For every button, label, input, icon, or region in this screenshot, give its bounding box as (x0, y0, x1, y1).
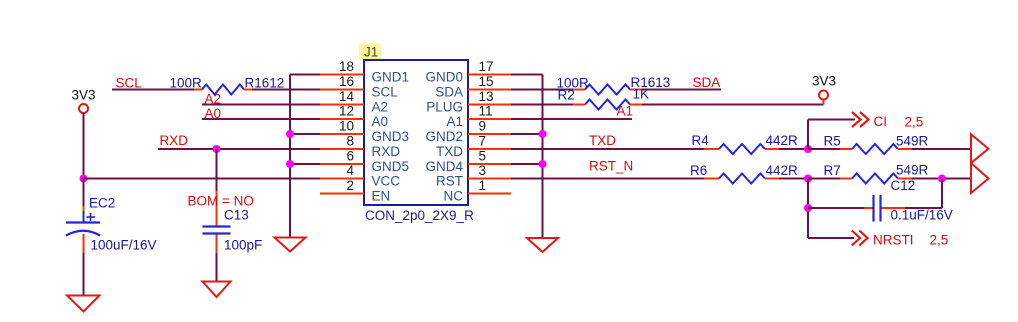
capacitor C13 (203, 227, 231, 234)
svg-text:2,5: 2,5 (905, 115, 924, 130)
svg-text:R7: R7 (824, 163, 841, 178)
resistor R1613 (573, 85, 642, 95)
pin numbers left (339, 59, 355, 193)
svg-text:14: 14 (339, 89, 355, 104)
svg-text:A1: A1 (446, 114, 463, 129)
svg-text:11: 11 (479, 104, 493, 119)
port NRSTI chevron (852, 231, 868, 246)
svg-text:RXD: RXD (160, 133, 189, 148)
connector J1 body CON_2p0_2X9_R (364, 60, 468, 205)
svg-text:EN: EN (372, 189, 391, 204)
svg-text:VCC: VCC (372, 174, 401, 189)
svg-text:J1: J1 (364, 45, 378, 60)
svg-text:12: 12 (339, 104, 354, 119)
junction GND rail pin 10 (286, 130, 294, 138)
junction R4 / R5 / CI (804, 145, 812, 153)
svg-text:18: 18 (339, 59, 354, 74)
svg-text:15: 15 (479, 74, 494, 89)
svg-text:R2: R2 (558, 88, 575, 103)
svg-text:442R: 442R (766, 133, 799, 148)
power symbol 3V3 (left) (72, 88, 96, 114)
ground (left rail) (275, 238, 306, 252)
svg-text:CON_2p0_2X9_R: CON_2p0_2X9_R (365, 208, 474, 223)
svg-text:GND4: GND4 (425, 159, 463, 174)
svg-text:13: 13 (479, 89, 494, 104)
junction GND rail pin 5 (539, 160, 547, 168)
pin numbers right (479, 59, 494, 193)
svg-text:1K: 1K (633, 87, 650, 102)
svg-text:RST: RST (436, 174, 463, 189)
svg-text:2: 2 (346, 178, 354, 193)
svg-text:0.1uF/16V: 0.1uF/16V (891, 208, 953, 223)
svg-text:100uF/16V: 100uF/16V (91, 238, 157, 253)
ground (C13) (203, 282, 231, 298)
svg-text:4: 4 (346, 163, 354, 178)
svg-text:16: 16 (339, 74, 354, 89)
wire RXD net (158, 148, 320, 150)
svg-text:TXD: TXD (436, 144, 463, 159)
arrow port (RST_N out) (971, 163, 989, 193)
port CI chevron (852, 112, 869, 127)
wire PLUG net (pin 13 to R2) (511, 104, 573, 106)
wire C13 to ground (216, 235, 218, 282)
svg-text:3V3: 3V3 (812, 74, 836, 89)
wire TXD net (pin 7 to R4) (511, 148, 704, 150)
svg-text:NRSTI: NRSTI (873, 233, 914, 248)
wire TXD net (R4 to junction) (779, 148, 808, 150)
svg-text:549R: 549R (896, 134, 929, 149)
connector J1 designator highlight (359, 44, 381, 60)
svg-text:RXD: RXD (372, 144, 401, 159)
svg-text:100R: 100R (170, 76, 203, 91)
svg-text:SDA: SDA (435, 85, 463, 100)
svg-text:A1: A1 (617, 104, 634, 119)
resistor R7 (840, 174, 912, 184)
svg-text:SCL: SCL (116, 76, 143, 91)
svg-text:R5: R5 (824, 134, 841, 149)
wire SCL net (112, 89, 194, 91)
wire A2 net (202, 104, 320, 106)
svg-text:2,5: 2,5 (930, 233, 949, 248)
junction RXD / C13 (213, 145, 221, 153)
svg-text:R6: R6 (690, 163, 707, 178)
pin stubs right (17,15,13,11,9,7,5,3,1) (468, 75, 511, 194)
svg-text:GND3: GND3 (372, 129, 410, 144)
svg-text:C12: C12 (891, 178, 916, 193)
svg-text:5: 5 (479, 149, 487, 164)
svg-text:10: 10 (339, 119, 354, 134)
svg-text:GND1: GND1 (372, 70, 410, 85)
svg-text:SDA: SDA (693, 75, 721, 90)
wire SDA net (R1613 to label) (642, 89, 721, 91)
svg-text:C13: C13 (224, 208, 249, 223)
svg-text:549R: 549R (896, 163, 929, 178)
svg-text:442R: 442R (766, 163, 799, 178)
svg-text:EC2: EC2 (89, 196, 115, 211)
wire NRSTI branch (808, 237, 854, 239)
pin stubs left (18,16,14,12,10,8,6,4,2) (320, 75, 364, 194)
junction R6 / R7 / C12 (804, 175, 812, 183)
svg-text:PLUG: PLUG (426, 100, 463, 115)
svg-text:100pF: 100pF (224, 238, 262, 253)
pin names left column (372, 70, 410, 204)
resistor R1612 (194, 85, 252, 95)
svg-text:17: 17 (479, 59, 494, 74)
pin names right column (425, 70, 463, 204)
capacitor C12 (874, 195, 881, 222)
arrow port (TXD out) (971, 134, 989, 163)
resistor R4 (704, 144, 779, 154)
wire SDA net (pin 15 to R1613) (511, 89, 573, 91)
wire CI branch (808, 120, 855, 150)
wire RST_N net (R6 to junction) (779, 178, 808, 180)
wire TXD net (R5 to arrow) (912, 148, 971, 150)
wire C13 branch (216, 149, 218, 226)
resistor R5 (840, 144, 912, 154)
wire VCC net (3V3 to pin 4) (84, 178, 321, 180)
wire GND rail right (pins 17,9,5) (511, 75, 543, 239)
svg-text:RST_N: RST_N (589, 159, 633, 174)
svg-text:6: 6 (346, 149, 354, 164)
junction GND rail pin 9 (539, 130, 547, 138)
wire C12 left branch (junction down to NRSTI corner) (807, 179, 809, 239)
wire EC2 branch (83, 179, 85, 213)
wire PLUG net (R2 to 3V3) (642, 100, 824, 105)
ground (EC2) (67, 296, 100, 312)
resistor R6 (704, 174, 779, 184)
svg-text:R1612: R1612 (245, 76, 285, 91)
wire A0 net (202, 118, 320, 120)
wire SCL to pin 16 (252, 89, 320, 91)
svg-text:BOM = NO: BOM = NO (188, 194, 254, 209)
svg-text:NC: NC (444, 189, 464, 204)
power symbol 3V3 (right) (812, 74, 836, 100)
svg-text:A2: A2 (372, 100, 389, 115)
svg-text:8: 8 (346, 134, 354, 149)
ground (right rail) (527, 238, 558, 252)
svg-text:7: 7 (479, 134, 487, 149)
svg-text:A0: A0 (372, 114, 389, 129)
junction 3V3 / VCC net (80, 175, 88, 183)
svg-text:1: 1 (479, 178, 487, 193)
svg-text:GND0: GND0 (425, 70, 463, 85)
wire GND rail left (pins 18,10,6) (290, 75, 320, 238)
svg-text:3V3: 3V3 (72, 88, 96, 103)
junction R7 out / C12 right (938, 175, 946, 183)
svg-text:GND5: GND5 (372, 159, 410, 174)
wire EC2 to ground (83, 234, 85, 295)
svg-text:CI: CI (874, 114, 888, 129)
wire 3V3 rail vertical (83, 113, 85, 179)
svg-text:9: 9 (479, 119, 487, 134)
capacitor EC2 (66, 211, 100, 236)
svg-text:SCL: SCL (372, 85, 399, 100)
svg-text:R4: R4 (692, 133, 710, 148)
wire TXD net (junction to R5) (808, 148, 840, 150)
junction C12 left (804, 204, 812, 212)
wire A1 net (pin 11) (511, 118, 632, 120)
svg-text:GND2: GND2 (425, 129, 463, 144)
wire C12 right horizontal (882, 179, 943, 209)
wire RST_N net (junction to R7) (808, 178, 840, 180)
wire C12 left horizontal (808, 207, 873, 209)
resistor R2 (573, 100, 642, 110)
wire RST_N net (pin 3 to R6) (511, 178, 704, 180)
svg-text:3: 3 (479, 163, 487, 178)
wire RST_N net (R7 to arrow) (912, 178, 971, 180)
junction GND rail pin 6 (286, 160, 294, 168)
svg-text:TXD: TXD (589, 133, 616, 148)
